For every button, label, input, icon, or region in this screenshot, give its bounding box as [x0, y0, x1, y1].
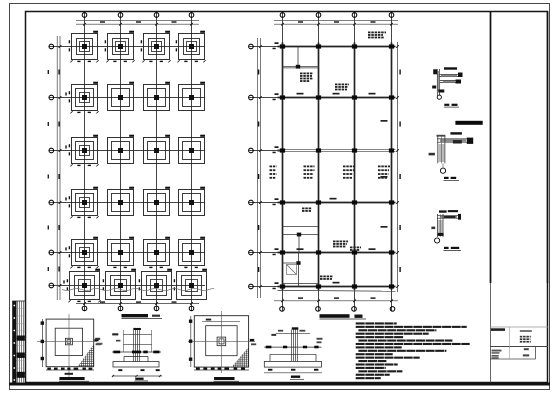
- footing J-3 row3 col2: [108, 135, 135, 164]
- footing detail B leader: [250, 339, 256, 345]
- beam label text row1 centre: [335, 84, 338, 86]
- footing J-1 row1 col2: [105, 31, 135, 63]
- foundation plan title bar: [122, 314, 163, 319]
- foundation plan left dimension line: [48, 36, 62, 300]
- framing plan column sections: [280, 44, 394, 288]
- foundation plan bottom grid bubbles: [82, 306, 194, 311]
- footing section A: [112, 328, 162, 377]
- footing J-6 row6 col2: [103, 269, 136, 300]
- detail 3-3 corner section: [431, 210, 461, 243]
- thick bottom frame line: [9, 383, 550, 386]
- framing plan bottom grid bubbles: [280, 307, 395, 312]
- framing plan bottom dimension line: [274, 297, 398, 302]
- framing plan left dimension line: [257, 38, 261, 298]
- footing detail A leader: [94, 339, 101, 345]
- beam label text outside left row3: [270, 166, 273, 168]
- beam label text row5 right: [350, 247, 353, 249]
- misc marks between details: [95, 338, 102, 345]
- beam label text top-right: [368, 32, 371, 34]
- framing plan horizontal beams: [278, 47, 396, 287]
- framing plan title bar: [320, 314, 367, 319]
- footing J-5 row5 col2: [108, 237, 135, 268]
- footing J-5 row5 col3: [144, 237, 171, 268]
- footing detail B dimensions: [189, 316, 249, 370]
- footing J-4 row4 col4: [179, 187, 206, 216]
- footing J-4 row4 col2: [108, 187, 135, 216]
- footing J-6 row6 col1: [63, 269, 100, 303]
- footing detail B title: [214, 377, 240, 381]
- detail 2-2 corner section: [429, 132, 474, 173]
- footing J-5 row5 col1: [65, 237, 98, 269]
- footing detail A bottom dimension: [46, 368, 94, 375]
- foundation plan top grid bubbles: [82, 13, 194, 18]
- detail title solid bar: [455, 121, 482, 125]
- foundation plan left grid bubbles: [49, 44, 54, 288]
- footing section A title: [135, 378, 149, 381]
- beam label text row3 centre: [304, 166, 307, 168]
- framing plan top dimension line: [274, 20, 398, 25]
- beam label text bottom centre: [320, 276, 323, 278]
- footing J-3 row3 col1: [65, 135, 98, 167]
- detail 2-2 label: [444, 177, 460, 181]
- footing J-3 row3 col4: [179, 135, 206, 164]
- framing subdivision top-left cell: [283, 47, 319, 69]
- framing plan right dimension line: [396, 42, 401, 292]
- framing plan left grid bubbles: [249, 44, 254, 289]
- footing J-1 row1 col1: [69, 31, 99, 63]
- beam label text cell A1: [300, 73, 303, 75]
- footing detail B plan outer: [188, 311, 255, 373]
- beam mid-span marks: [297, 93, 388, 284]
- revision table strip: [12, 301, 25, 383]
- footing detail A title: [59, 377, 89, 381]
- detail 1-1 corner section: [432, 67, 462, 99]
- footing section B: [264, 327, 323, 373]
- framing stair flight lines: [282, 227, 318, 253]
- foundation plan grid horizontals: [49, 47, 205, 286]
- footing J-1 row1 col3: [141, 31, 171, 63]
- framing plan grid verticals: [283, 12, 392, 311]
- footing J-2 row2 col3: [144, 82, 171, 111]
- footing J-2 row2 col4: [179, 82, 206, 111]
- footing detail A left dimension: [41, 319, 44, 367]
- footing detail B hatch triangle: [231, 346, 249, 368]
- framing lower-left room lines: [282, 253, 318, 287]
- framing plan top grid bubbles: [280, 13, 394, 18]
- foundation plan top dimension line: [76, 20, 199, 25]
- title block project text: [520, 330, 532, 332]
- foundation plan grid verticals: [85, 12, 192, 311]
- footing detail A hatch triangle: [77, 344, 94, 367]
- footing J-4 row4 col3: [144, 187, 171, 216]
- beam label text row5 left: [333, 241, 336, 243]
- foundation plan bottom dimension line: [76, 301, 199, 304]
- title block scale values: [523, 348, 529, 356]
- footing J-4 row4 col1: [65, 187, 98, 219]
- footing J-5 row5 col4: [179, 237, 206, 268]
- detail 1-1 label: [444, 104, 459, 107]
- title block row lines: [490, 327, 548, 359]
- beam label text stair area: [302, 208, 305, 210]
- title block column divider: [490, 12, 492, 284]
- title block scale labels: [492, 350, 502, 359]
- title block drawing name label: [491, 328, 505, 331]
- break line through bottom footing row: [62, 288, 214, 290]
- notes text lines: [356, 322, 470, 379]
- footing J-6 row6 col3: [139, 269, 172, 300]
- footing J-1 row1 col4: [176, 31, 206, 63]
- title block right inner edge: [547, 12, 549, 284]
- title block drawing title text: [520, 336, 523, 338]
- framing plan left edge tick labels: [273, 42, 279, 289]
- footing section B title: [290, 376, 304, 380]
- framing plan left grid extension lines: [249, 47, 282, 287]
- framing plan vertical beams: [283, 43, 392, 291]
- framing plan bottom outline second line: [278, 289, 396, 292]
- detail 3-3 label: [444, 247, 462, 251]
- footing J-2 row2 col1: [65, 82, 98, 114]
- footing detail A plan outer: [37, 314, 97, 377]
- footing J-6 row6 col4: [174, 269, 207, 300]
- footing J-2 row2 col2: [108, 82, 135, 111]
- footing J-3 row3 col3: [144, 135, 171, 164]
